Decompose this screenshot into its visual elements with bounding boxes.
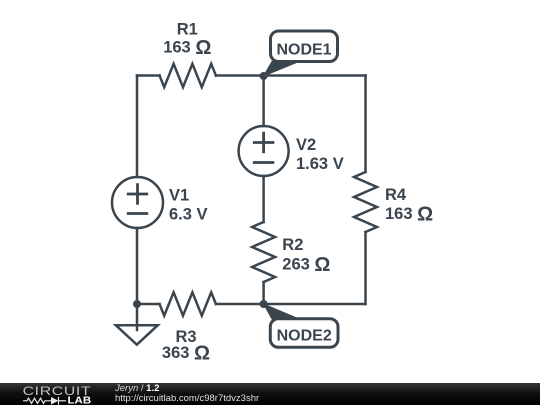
logo resistor-diode glyph — [23, 397, 66, 405]
ground — [116, 304, 158, 345]
voltage source V2 — [239, 126, 289, 176]
svg-text:6.3 V: 6.3 V — [169, 206, 208, 224]
junction at NODE2 — [260, 300, 268, 308]
svg-text:R2: R2 — [282, 236, 303, 254]
wire bottom right (R3 to right branch) — [216, 303, 366, 306]
resistor R3 — [160, 292, 216, 315]
svg-text:163 Ω: 163 Ω — [385, 204, 433, 226]
svg-text:1.63 V: 1.63 V — [296, 155, 344, 173]
resistor R1 — [160, 64, 216, 87]
wire right branch lower — [364, 232, 367, 304]
wire top left (R1 left lead) — [137, 74, 160, 77]
svg-text:V1: V1 — [169, 186, 189, 204]
wire left branch upper — [136, 76, 139, 178]
wire right branch upper — [364, 76, 367, 173]
resistor R4 — [354, 172, 377, 232]
svg-text:163 Ω: 163 Ω — [163, 37, 211, 59]
node NODE2 flag — [264, 304, 338, 347]
wire R2 to bottom — [262, 282, 265, 304]
wire top right (R1 to right branch) — [216, 74, 366, 77]
node NODE1 flag — [264, 31, 338, 76]
svg-text:V2: V2 — [296, 136, 316, 154]
svg-text:363 Ω: 363 Ω — [162, 343, 210, 365]
svg-text:R4: R4 — [385, 186, 407, 204]
junction at ground — [133, 300, 141, 308]
wire bottom left (R3 left lead) — [137, 303, 160, 306]
svg-text:http://circuitlab.com/c98r7tdv: http://circuitlab.com/c98r7tdvz3shr — [115, 393, 259, 404]
wire middle branch upper — [262, 76, 265, 126]
svg-text:LAB: LAB — [68, 395, 92, 405]
resistor R2 — [252, 222, 275, 282]
voltage source V1 — [112, 177, 163, 228]
wire V2 to R2 — [262, 176, 265, 222]
junction at NODE1 — [260, 72, 268, 80]
svg-text:NODE1: NODE1 — [276, 42, 331, 59]
wire left branch lower — [136, 228, 139, 304]
svg-text:NODE2: NODE2 — [277, 327, 332, 344]
svg-text:R1: R1 — [177, 20, 198, 38]
svg-text:263 Ω: 263 Ω — [282, 254, 330, 276]
